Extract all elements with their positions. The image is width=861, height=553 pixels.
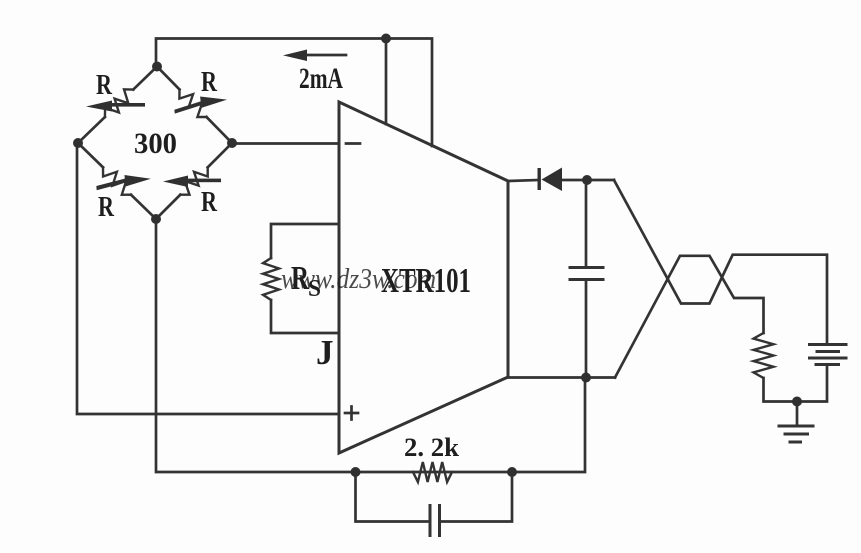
junction dot bottom rail left (351, 467, 361, 477)
arrow through R top-right (173, 94, 228, 114)
wire bridge arm top-left (133, 67, 157, 90)
wire twisted pair conductor 1 (614, 180, 827, 344)
wire pin drop from node A (385, 39, 388, 125)
capacitor C2 loop wires (356, 472, 430, 522)
bridge left node dot (73, 138, 83, 148)
plus input tick (345, 412, 358, 415)
svg-text:R: R (201, 67, 218, 98)
resistor RS box (271, 224, 338, 258)
wire diode to junction (562, 179, 614, 182)
arrow through R top-left (86, 101, 145, 112)
battery B1 plates (810, 343, 847, 346)
ground stem (796, 402, 799, 425)
svg-text:2. 2k: 2. 2k (404, 433, 460, 462)
resistor R load zigzag (754, 333, 774, 378)
svg-text:J: J (316, 333, 334, 372)
wire bridge arm top-right (157, 67, 180, 90)
wire bridge arm bottom-right (156, 195, 180, 219)
resistor R top-left zigzag (105, 89, 133, 117)
svg-text:R: R (201, 187, 218, 218)
wire bridge bottom node down to bottom rail (156, 219, 585, 472)
svg-text:2mA: 2mA (299, 62, 343, 95)
junction dot diode-capacitor (582, 175, 592, 185)
wire twisted pair conductor 2 (615, 256, 764, 378)
resistor R top-right zigzag (179, 90, 206, 118)
capacitor C1 wires (585, 180, 588, 267)
svg-text:300: 300 (134, 127, 177, 160)
ground bars (779, 425, 813, 428)
resistor R bottom-right zigzag (180, 167, 207, 194)
current arrow 2mA head (283, 50, 307, 62)
resistor RS zigzag (263, 258, 279, 300)
svg-text:R: R (96, 70, 113, 101)
resistor 2.2k zigzag (413, 462, 452, 482)
diode D1 (538, 168, 563, 192)
capacitor C2 plates (429, 506, 432, 536)
bridge bottom node dot (151, 214, 161, 224)
node A junction dot top rail (381, 34, 391, 44)
wire top output to diode (508, 180, 539, 181)
wire load resistor to bottom (764, 365, 828, 402)
wire bottom output (508, 376, 615, 379)
arrow through R bottom-right (163, 176, 221, 188)
svg-text:www.dz3w.com: www.dz3w.com (281, 263, 436, 295)
resistor R bottom-left zigzag (103, 167, 131, 195)
arrow through R bottom-left (96, 173, 152, 191)
bridge right node dot (227, 138, 237, 148)
junction dot bottom-capacitor (581, 373, 591, 383)
capacitor C1 plates (570, 266, 603, 269)
svg-text:R: R (98, 192, 115, 223)
junction dot ground (792, 397, 802, 407)
minus input tick (346, 142, 360, 145)
wire bridge left node down to non-inverting input (77, 143, 339, 414)
wire top rail (156, 39, 432, 147)
wire bridge arm bottom-left (78, 143, 103, 167)
op-amp U1 XTR101 body (339, 102, 508, 453)
current arrow 2mA shaft (303, 54, 346, 57)
bridge top node dot (152, 62, 162, 72)
wire bridge right node to inverting input (232, 142, 339, 145)
junction dot bottom rail right (507, 467, 517, 477)
